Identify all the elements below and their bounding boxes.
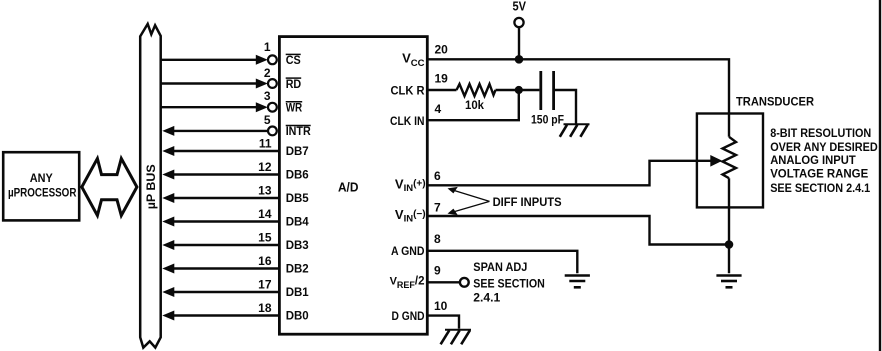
svg-text:18: 18	[258, 301, 272, 315]
WR pin label	[286, 101, 303, 115]
svg-text:DB6: DB6	[286, 168, 309, 182]
svg-text:DB3: DB3	[286, 238, 309, 252]
wire A GND pin 8 to ground	[428, 251, 577, 273]
svg-text:DB1: DB1	[286, 285, 309, 299]
junction transducer / Vin-	[725, 240, 734, 249]
resistor 10k	[457, 84, 496, 96]
svg-text:RD: RD	[286, 77, 302, 91]
wire DB5 pin 13 to bus	[162, 193, 280, 203]
junction 5V / Vcc	[515, 55, 524, 64]
svg-text:DB7: DB7	[286, 144, 309, 158]
svg-text:DIFF INPUTS: DIFF INPUTS	[493, 195, 562, 209]
wiper arrowhead	[710, 155, 722, 167]
svg-text:2.4.1: 2.4.1	[473, 291, 500, 305]
svg-text:CS: CS	[286, 53, 301, 67]
5V supply terminal	[513, 0, 527, 59]
svg-text:19: 19	[435, 72, 449, 86]
wire D GND pin 10 to chassis ground	[428, 316, 459, 329]
wire WR bus to pin 3	[161, 106, 258, 108]
svg-text:3: 3	[264, 89, 271, 103]
wire DB1 pin 17 to bus	[162, 287, 280, 297]
svg-text:CLK IN: CLK IN	[390, 114, 425, 128]
svg-text:DB0: DB0	[286, 309, 309, 323]
svg-text:8-BIT RESOLUTION: 8-BIT RESOLUTION	[770, 126, 871, 140]
svg-text:DB4: DB4	[286, 215, 309, 229]
svg-text:A/D: A/D	[338, 181, 359, 195]
wire DB6 pin 12 to bus	[162, 170, 280, 180]
svg-text:20: 20	[435, 43, 449, 57]
DIFF INPUTS callout	[448, 187, 562, 215]
wire DB0 pin 18 to bus	[162, 311, 280, 321]
CS pin label	[286, 53, 301, 67]
svg-text:14: 14	[258, 207, 272, 221]
svg-text:1: 1	[264, 40, 271, 54]
svg-text:17: 17	[258, 278, 272, 292]
INTR pin label	[286, 124, 311, 138]
uP BUS bar	[140, 24, 161, 348]
svg-text:10: 10	[434, 299, 448, 313]
svg-text:5V: 5V	[513, 0, 527, 14]
transducer box	[697, 114, 763, 208]
svg-text:2: 2	[264, 66, 271, 80]
svg-text:TRANSDUCER: TRANSDUCER	[736, 95, 814, 109]
chassis ground (clk cap)	[560, 124, 590, 137]
svg-text:16: 16	[258, 254, 272, 268]
svg-text:10k: 10k	[465, 98, 484, 112]
svg-text:9: 9	[434, 264, 441, 278]
svg-text:7: 7	[434, 200, 441, 214]
svg-text:ANALOG INPUT: ANALOG INPUT	[770, 153, 856, 167]
svg-text:SEE SECTION: SEE SECTION	[473, 276, 545, 290]
pin 5 bubble	[268, 126, 277, 135]
resolution note text	[770, 126, 878, 195]
wire Vref/2 pin 9	[428, 281, 460, 283]
RD pin label	[286, 77, 302, 91]
pin 3 bubble	[268, 103, 277, 112]
transducer potentiometer element	[723, 137, 737, 178]
svg-text:A GND: A GND	[391, 244, 425, 258]
pin 2 bubble	[268, 79, 277, 88]
wire capacitor to chassis ground	[555, 90, 576, 124]
svg-text:DB5: DB5	[286, 191, 309, 205]
wire RD bus to pin 2	[161, 82, 258, 84]
wire DB3 pin 15 to bus	[162, 240, 280, 250]
svg-text:DB2: DB2	[286, 262, 309, 276]
SPAN ADJ note	[473, 260, 545, 304]
junction clk node	[515, 86, 523, 94]
wire DB2 pin 16 to bus	[162, 264, 280, 274]
svg-text:13: 13	[258, 184, 272, 198]
svg-text:6: 6	[434, 169, 441, 183]
wire CS bus to pin 1	[161, 59, 258, 61]
earth ground (A GND)	[565, 276, 590, 288]
capacitor C 150pF	[541, 71, 554, 110]
svg-text:15: 15	[258, 231, 272, 245]
wire INTR pin 5 to bus	[171, 130, 268, 132]
chassis ground (D GND)	[441, 330, 471, 345]
svg-text:8: 8	[434, 232, 441, 246]
wire resistor to capacitor	[496, 89, 540, 91]
svg-text:OVER ANY DESIRED: OVER ANY DESIRED	[770, 140, 878, 154]
svg-text:CLK R: CLK R	[391, 84, 425, 98]
svg-text:150 pF: 150 pF	[531, 113, 564, 127]
wire Vcc pin 20 to transducer top	[428, 59, 729, 137]
svg-text:SEE SECTION 2.4.1: SEE SECTION 2.4.1	[770, 181, 870, 195]
wire DB4 pin 14 to bus	[162, 217, 280, 227]
wire DB7 pin 11 to bus	[162, 146, 280, 156]
svg-text:WR: WR	[286, 101, 303, 115]
wire transducer bottom to ground	[728, 178, 730, 273]
wire Vin+ pin 6 to transducer wiper	[428, 161, 712, 186]
svg-text:µP BUS: µP BUS	[144, 164, 158, 209]
wire clk node to CLK IN pin 4	[428, 90, 519, 120]
svg-text:11: 11	[259, 137, 272, 151]
wire Vin- pin 7 to transducer bottom	[428, 216, 729, 245]
svg-text:12: 12	[258, 160, 272, 174]
svg-text:5: 5	[264, 113, 271, 127]
A/D converter box U1	[279, 37, 427, 335]
svg-text:VOLTAGE RANGE: VOLTAGE RANGE	[770, 167, 868, 181]
earth ground (transducer)	[716, 276, 741, 288]
svg-text:4: 4	[435, 102, 442, 116]
bidirectional bus arrow	[82, 159, 137, 216]
svg-text:INTR: INTR	[286, 124, 311, 138]
svg-text:SPAN ADJ: SPAN ADJ	[473, 260, 527, 274]
svg-text:D GND: D GND	[392, 309, 425, 323]
svg-text:µPROCESSOR: µPROCESSOR	[8, 186, 77, 200]
microprocessor box ANY uPROCESSOR	[3, 152, 79, 220]
pin 9 terminal bubble	[460, 278, 469, 287]
svg-text:ANY: ANY	[30, 171, 53, 185]
pin 1 bubble	[268, 55, 277, 64]
wire CLK R pin 19 to resistor	[428, 89, 456, 91]
